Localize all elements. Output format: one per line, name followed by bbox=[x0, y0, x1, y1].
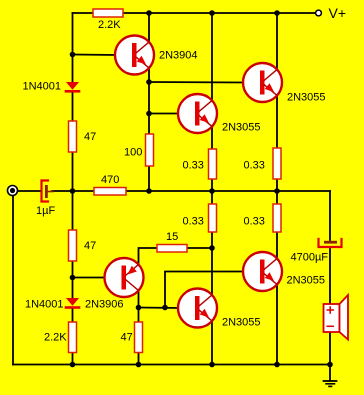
wire: 47 down to input node bbox=[72, 152, 74, 191]
junction Q4 collector node bbox=[136, 305, 142, 311]
svg-text:1µF: 1µF bbox=[36, 205, 55, 217]
junction ground rail at 2.2K bbox=[70, 362, 76, 368]
resistor 2.2K (top) bbox=[93, 9, 123, 17]
speaker LS1 bbox=[324, 295, 349, 340]
svg-text:2N3906: 2N3906 bbox=[85, 299, 124, 311]
junction ground rail at Q6 emitter bbox=[274, 362, 280, 368]
diode 1N4001 (bottom) bbox=[66, 298, 79, 308]
wire: Q2 base node down to 100 resistor bbox=[148, 114, 150, 135]
junction Q4 base node bbox=[70, 275, 76, 281]
wire: lower right 0.33 to Q6 collector bbox=[276, 232, 278, 259]
svg-text:0.33: 0.33 bbox=[183, 216, 204, 228]
wire: driver node to mid output node bbox=[149, 190, 212, 192]
svg-text:0.33: 0.33 bbox=[183, 160, 204, 172]
transistor Q4 2N3906 bbox=[105, 258, 144, 297]
resistor 2.2K (bottom) bbox=[69, 322, 77, 353]
wire: 15 resistor left leg to Q4 emitter bbox=[139, 248, 158, 266]
junction ground rail at speaker bbox=[327, 362, 333, 368]
wire: Q6 emitter to ground rail bbox=[276, 284, 278, 365]
wire: top rail to Q1 collector bbox=[148, 13, 150, 43]
wire: bias node to Q1 base bbox=[73, 54, 118, 57]
junction driver node bbox=[146, 188, 152, 194]
wire: mid output node to right output node bbox=[212, 190, 277, 192]
capacitor 4700uF (output) bbox=[319, 239, 342, 247]
diode 1N4001 (top) bbox=[66, 82, 79, 91]
svg-text:4700µF: 4700µF bbox=[291, 252, 329, 264]
junction ground rail at 47 bbox=[136, 362, 142, 368]
svg-text:100: 100 bbox=[124, 147, 142, 159]
svg-text:2N3904: 2N3904 bbox=[159, 50, 198, 62]
wire: Q5 collector node down to Q5 bbox=[211, 248, 213, 296]
wire: speaker to ground rail bbox=[329, 332, 331, 365]
wire: Q4 collector down to node bbox=[138, 290, 140, 308]
wire: top rail to Q2 collector bbox=[211, 13, 213, 101]
wire: upper right 0.33 to right output node bbox=[276, 179, 278, 191]
input jack bbox=[8, 186, 18, 196]
wire: Q6 base leg up and right bbox=[165, 272, 245, 308]
transistor Q3 2N3055 (upper right) bbox=[243, 63, 282, 102]
wire: right output node down to lower right 0.33 bbox=[276, 191, 278, 204]
junction input node bbox=[70, 188, 76, 194]
wire: top rail to Q3 collector bbox=[276, 13, 278, 70]
wire: corner down to 4700uF cap bbox=[329, 191, 331, 240]
wire: lower 47 to Q4 base node bbox=[72, 261, 74, 278]
wire: 470 to driver node bbox=[126, 190, 149, 192]
svg-text:47: 47 bbox=[121, 332, 133, 344]
resistor 0.33 (upper middle) bbox=[209, 149, 217, 179]
wire: Q4 collector node down to bottom 47 bbox=[138, 308, 140, 323]
svg-text:2N3055: 2N3055 bbox=[222, 317, 261, 329]
svg-text:47: 47 bbox=[84, 240, 96, 252]
wire: input node to 470 resistor bbox=[73, 190, 95, 192]
wire: left vertical from top rail to bias node bbox=[72, 13, 74, 55]
wire: V+ top rail to terminal bbox=[123, 12, 315, 14]
resistor 15 bbox=[157, 245, 187, 253]
svg-text:2.2K: 2.2K bbox=[44, 332, 67, 344]
terminal V+ bbox=[316, 10, 322, 16]
svg-text:15: 15 bbox=[166, 231, 178, 243]
junction Q5 collector node bbox=[209, 245, 215, 251]
junction right output node bbox=[274, 188, 280, 194]
transistor Q6 2N3055 (lower right) bbox=[243, 252, 282, 291]
wire: Q4 base feed bbox=[73, 277, 107, 279]
svg-text:0.33: 0.33 bbox=[244, 216, 265, 228]
resistor 47 (lower left) bbox=[69, 230, 77, 261]
wire: D1 to 47 resistor bbox=[72, 93, 74, 122]
transistor Q1 2N3904 bbox=[115, 36, 154, 75]
svg-text:2N3055: 2N3055 bbox=[222, 122, 261, 134]
capacitor 1uF (input coupling) bbox=[42, 181, 54, 202]
wire: Q4 collector node to Q5 base bbox=[139, 307, 181, 310]
resistor 0.33 (upper right) bbox=[273, 148, 281, 179]
wire: coupling cap to input node bbox=[52, 190, 73, 192]
junction Q2 base node bbox=[146, 111, 152, 117]
wire: upper middle 0.33 to mid output node bbox=[211, 179, 213, 191]
wire: ground rail bbox=[13, 364, 330, 366]
resistor 47 (upper left) bbox=[69, 121, 77, 152]
transistor Q2 2N3055 (upper middle) bbox=[178, 94, 217, 133]
ground symbol bbox=[324, 365, 337, 387]
wire: Q4 base node down to diode D2 bbox=[72, 278, 74, 300]
wire: Q2 base feed bbox=[149, 113, 180, 115]
wire: jack ground leg down bbox=[12, 196, 14, 365]
resistor 470 bbox=[94, 188, 126, 196]
wire: Q1 emitter node to Q3 base bbox=[149, 81, 245, 84]
wire: bottom 47 to ground rail bbox=[138, 353, 140, 365]
junction on top rail at Q2 collector bbox=[209, 10, 215, 16]
junction Q6 base leg node bbox=[162, 305, 168, 311]
wire: lower middle 0.33 to Q5 collector node bbox=[211, 232, 213, 248]
resistor 100 bbox=[146, 134, 154, 166]
junction ground rail at Q5 emitter bbox=[209, 362, 215, 368]
svg-text:2N3055: 2N3055 bbox=[287, 275, 326, 287]
wire: node down to Q2 base node bbox=[148, 82, 150, 114]
junction on top rail at Q1 collector bbox=[146, 10, 152, 16]
svg-text:0.33: 0.33 bbox=[244, 160, 265, 172]
wire: Q2 emitter to upper middle 0.33 bbox=[211, 126, 213, 149]
junction bias node bbox=[70, 52, 76, 58]
wire: D2 to bottom 2.2K bbox=[72, 309, 74, 322]
wire: 100 down to driver node bbox=[148, 166, 150, 191]
svg-text:470: 470 bbox=[101, 174, 119, 186]
junction mid output node bbox=[209, 188, 215, 194]
wire: jack to coupling cap bbox=[18, 190, 41, 192]
svg-text:1N4001: 1N4001 bbox=[25, 299, 64, 311]
wire: Q5 emitter to ground rail bbox=[211, 320, 213, 365]
wire: 4700uF cap to speaker bbox=[329, 249, 331, 304]
junction on top rail at Q3 collector bbox=[274, 10, 280, 16]
wire: bottom 2.2K to ground rail bbox=[72, 353, 74, 365]
svg-text:2.2K: 2.2K bbox=[98, 19, 121, 31]
resistor 0.33 (lower middle) bbox=[209, 204, 217, 232]
svg-text:V+: V+ bbox=[329, 5, 347, 21]
svg-text:2N3055: 2N3055 bbox=[287, 92, 326, 104]
resistor 0.33 (lower right) bbox=[273, 204, 281, 232]
svg-text:1N4001: 1N4001 bbox=[23, 81, 62, 93]
wire: Q3 emitter to upper right 0.33 bbox=[276, 95, 278, 148]
wire: V+ top rail left segment bbox=[73, 12, 94, 14]
wire: 15 resistor to Q5 collector node bbox=[187, 247, 212, 249]
transistor Q5 2N3055 (lower middle) bbox=[178, 289, 217, 328]
svg-text:47: 47 bbox=[84, 131, 96, 143]
wire: bias node down to diode D1 bbox=[72, 55, 74, 84]
wire: right output node toward cap corner bbox=[277, 190, 330, 192]
resistor 47 (bottom) bbox=[135, 322, 143, 353]
wire: Q1 emitter down to node bbox=[148, 67, 150, 82]
wire: mid output node down to lower middle 0.33 bbox=[211, 191, 213, 204]
junction Q1 emitter node bbox=[146, 79, 152, 85]
wire: input node down to lower 47 bbox=[72, 191, 74, 230]
